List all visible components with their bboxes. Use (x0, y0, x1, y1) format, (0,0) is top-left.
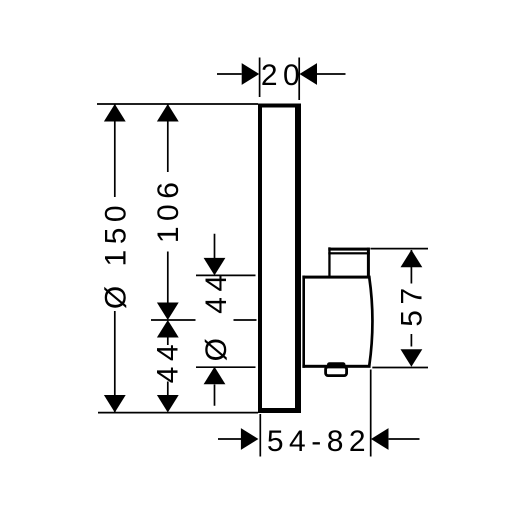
svg-text:54-82: 54-82 (267, 425, 371, 458)
svg-text:44: 44 (152, 339, 185, 383)
svg-text:20: 20 (261, 59, 305, 92)
svg-text:106: 106 (152, 177, 185, 244)
svg-text:57: 57 (396, 282, 429, 326)
svg-text:Ø 44: Ø 44 (200, 269, 233, 361)
svg-text:Ø 150: Ø 150 (99, 200, 132, 309)
